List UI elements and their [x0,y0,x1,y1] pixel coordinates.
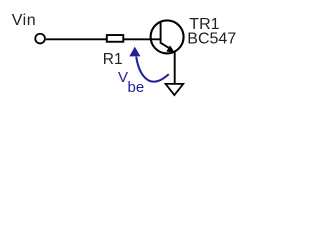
wire emitter to ground [174,51,176,84]
resistor R1 [107,35,124,42]
svg-text:BC547: BC547 [187,31,236,48]
transistor TR1 [151,20,184,53]
wire input to R1 [46,38,107,40]
svg-text:Vin: Vin [12,12,36,29]
svg-text:R1: R1 [103,51,123,68]
Vbe arrow curve [136,57,169,82]
Vbe arrowhead [129,47,140,57]
ground [166,84,184,95]
wire R1 to base [124,38,162,40]
input terminal circle [35,34,45,44]
svg-text:V: V [118,69,128,86]
svg-text:be: be [128,79,145,96]
